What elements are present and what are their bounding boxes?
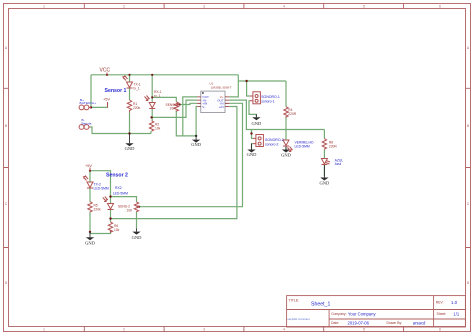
wire TX2-R5: [89, 188, 91, 201]
wire RX2 column: [110, 197, 112, 203]
wire R2 bottom: [150, 131, 152, 134]
ground under azul: [320, 165, 330, 186]
svg-text:Drawn By:: Drawn By:: [387, 321, 403, 325]
wire B- to ground rail: [91, 127, 152, 134]
+5V symbol sensor1: [103, 97, 110, 108]
svg-text:B: B: [5, 124, 7, 128]
wire R1 bottom: [129, 113, 131, 134]
connector SONORO-2: [253, 135, 284, 147]
svg-text:V-: V-: [202, 105, 205, 109]
resistor R6: [108, 222, 119, 232]
connector SONORO-1: [250, 92, 280, 104]
connector B+ BATERIA+: [79, 98, 96, 110]
wire R4 to vermelho: [285, 116, 287, 139]
svg-text:LM393L-D08-T: LM393L-D08-T: [211, 85, 232, 89]
svg-text:220k: 220k: [133, 106, 141, 110]
svg-text:Date:: Date:: [331, 321, 339, 325]
ground under R5: [85, 232, 95, 245]
wire RX1-junction-R2: [151, 109, 153, 121]
wire pot1 bottom to gnd rail: [176, 111, 196, 136]
svg-text:Company:: Company:: [331, 312, 347, 316]
svg-text:1: 1: [43, 5, 45, 9]
ground under opamp V-: [191, 136, 201, 147]
svg-text:GND: GND: [320, 181, 330, 186]
top ticks: [84, 4, 403, 9]
svg-text:easyEDA.com/arsacd: easyEDA.com/arsacd: [288, 318, 311, 321]
wire sonoro2 branch: [252, 130, 253, 139]
svg-text:rx_1: rx_1: [154, 94, 161, 98]
wire right -IN long: [139, 103, 242, 206]
ground under vermelho: [281, 147, 291, 158]
+5V symbol sensor2: [85, 163, 92, 171]
wire RX1 column top: [151, 75, 153, 102]
node RX2 top: [109, 195, 111, 197]
svg-text:1/1: 1/1: [453, 312, 459, 317]
svg-text:Sensor 1: Sensor 1: [105, 88, 127, 94]
resistor R2: [149, 121, 160, 131]
svg-text:tx_1: tx_1: [134, 86, 140, 90]
wire pot1 wiper to +IN: [179, 103, 197, 104]
svg-text:BATERIA+: BATERIA+: [80, 101, 97, 105]
ground under R1: [125, 134, 135, 152]
svg-text:Your Company: Your Company: [348, 311, 376, 316]
side ticks: [4, 88, 9, 247]
svg-text:5: 5: [363, 5, 365, 9]
svg-text:1: 1: [43, 328, 45, 332]
svg-text:4: 4: [283, 5, 285, 9]
node pot2 wiper: [138, 206, 140, 208]
svg-text:10K: 10K: [127, 208, 134, 212]
resistor R8: [322, 139, 337, 150]
wire opamp left OUT loop down: [183, 97, 197, 136]
svg-text:GND: GND: [252, 121, 262, 126]
svg-text:+IN: +IN: [219, 105, 224, 109]
ground under pot2: [132, 228, 142, 240]
wire vermelho to gnd: [285, 147, 287, 151]
svg-text:GND: GND: [125, 146, 135, 151]
wire right OUT long run: [229, 100, 324, 129]
wire azul to gnd: [323, 165, 325, 177]
svg-text:2: 2: [123, 5, 125, 9]
svg-text:220k: 220k: [94, 208, 102, 212]
VCC symbol: [100, 68, 111, 75]
svg-text:3: 3: [203, 5, 205, 9]
svg-text:sonoro-2: sonoro-2: [265, 143, 278, 147]
potentiometer SENS-1: [166, 102, 180, 111]
node sensor2 5v: [89, 170, 91, 172]
svg-text:SONORO-1: SONORO-1: [261, 95, 280, 99]
wire sonoro2 low pin gnd: [252, 144, 253, 149]
node R5 bottom: [89, 231, 91, 233]
svg-text:Sensor 2: Sensor 2: [106, 172, 128, 178]
wire right +IN long: [111, 107, 237, 219]
svg-text:GND: GND: [132, 235, 142, 240]
wire TX1-R1: [129, 89, 131, 101]
node vcc spur: [245, 80, 247, 82]
bottom ticks: [84, 327, 403, 332]
svg-text:GND: GND: [191, 142, 201, 147]
wire R5 bottom: [89, 212, 91, 232]
svg-text:+5V: +5V: [85, 163, 92, 168]
svg-text:sonoro-1: sonoro-1: [261, 100, 274, 104]
svg-text:arsacd: arsacd: [413, 320, 426, 325]
LED RX2 (photodiode): [103, 186, 128, 210]
op-amp U1: [197, 82, 232, 113]
resistor R4: [284, 107, 297, 117]
node V- gnd: [195, 135, 197, 137]
LED TX-1: [123, 76, 141, 91]
svg-text:LED-5MM: LED-5MM: [113, 192, 128, 196]
node gnd rail R1: [128, 132, 130, 134]
node RX1 divider: [150, 116, 152, 118]
wire V- to gnd: [196, 107, 197, 136]
node battery plus: [90, 106, 92, 108]
wire VCC top rail: [91, 74, 238, 76]
svg-text:GND: GND: [85, 240, 95, 245]
wire sonoro1 feed: [247, 81, 250, 96]
svg-text:B: B: [467, 124, 469, 128]
LED AZUL: [321, 159, 343, 167]
node pot1 wiper: [179, 103, 181, 105]
wire +5V branch sensor1: [91, 103, 108, 108]
svg-text:6: 6: [439, 328, 441, 332]
svg-text:GND: GND: [281, 153, 291, 158]
wire vcc spur y81: [238, 80, 286, 82]
svg-text:5: 5: [363, 328, 365, 332]
wire TX2 column: [89, 171, 91, 182]
wire R8 column: [323, 130, 325, 139]
svg-text:10k: 10k: [155, 127, 161, 131]
wire pot2 bottom to gnd: [136, 212, 138, 228]
svg-text:10k: 10k: [114, 228, 120, 232]
svg-text:LED-5MM: LED-5MM: [295, 144, 310, 148]
svg-text:REV:: REV:: [436, 301, 444, 305]
wire sonoro1 low pin to gnd: [249, 101, 256, 117]
svg-text:6: 6: [439, 5, 441, 9]
svg-text:RX2: RX2: [115, 186, 122, 190]
svg-text:Sheet_1: Sheet_1: [311, 302, 330, 308]
svg-text:2: 2: [123, 328, 125, 332]
wire left drop to battery node: [90, 75, 92, 108]
node sonoro2 tap: [250, 132, 252, 134]
svg-text:2019-07-06: 2019-07-06: [348, 320, 370, 325]
wire +5V rail sensor2: [90, 171, 111, 197]
svg-text:Azul: Azul: [335, 162, 342, 166]
svg-text:10K: 10K: [170, 107, 177, 111]
ground under sonoro1: [252, 114, 262, 125]
svg-text:TITLE:: TITLE:: [289, 299, 300, 303]
potentiometer SENS-2: [118, 202, 139, 212]
node RX1 top: [151, 74, 153, 76]
node pot1 top tap: [151, 96, 153, 98]
wire R4 column: [285, 81, 287, 107]
resistor R5: [88, 202, 101, 213]
svg-text:+5V: +5V: [103, 97, 110, 102]
wire RX1 junction to -IN: [152, 100, 198, 117]
svg-text:3: 3: [203, 328, 205, 332]
wire TX1 column top: [129, 75, 131, 82]
resistor R1: [127, 100, 140, 113]
node TX1 top: [128, 74, 130, 76]
node RX2 divider: [109, 217, 111, 219]
connector B- Bateria: [79, 118, 91, 129]
LED VERMELHO: [283, 140, 314, 152]
wire RX2 junction to R6: [110, 210, 112, 222]
svg-text:220R: 220R: [288, 112, 297, 116]
ground under sonoro2: [247, 144, 257, 158]
svg-text:SONORO-2: SONORO-2: [265, 138, 284, 142]
title block: [287, 296, 466, 327]
wire R6 bottom jog: [90, 231, 111, 234]
wire V+ up to rail: [229, 75, 238, 97]
svg-text:LED-5MM: LED-5MM: [94, 186, 109, 190]
svg-text:4: 4: [283, 328, 285, 332]
svg-text:Sheet:: Sheet:: [437, 312, 447, 316]
wire pot1 top to RX1 vertical: [152, 97, 176, 101]
svg-text:1.0: 1.0: [451, 300, 458, 305]
svg-text:220R: 220R: [329, 145, 338, 149]
LED RX-1 (photodiode): [145, 90, 162, 109]
node VCC tap: [106, 74, 108, 76]
LED TX-2: [83, 176, 109, 191]
wire R8 to azul: [323, 149, 325, 158]
svg-text:GND: GND: [247, 152, 257, 157]
wire pot2 top feed: [111, 197, 137, 202]
svg-text:VCC: VCC: [100, 68, 111, 74]
